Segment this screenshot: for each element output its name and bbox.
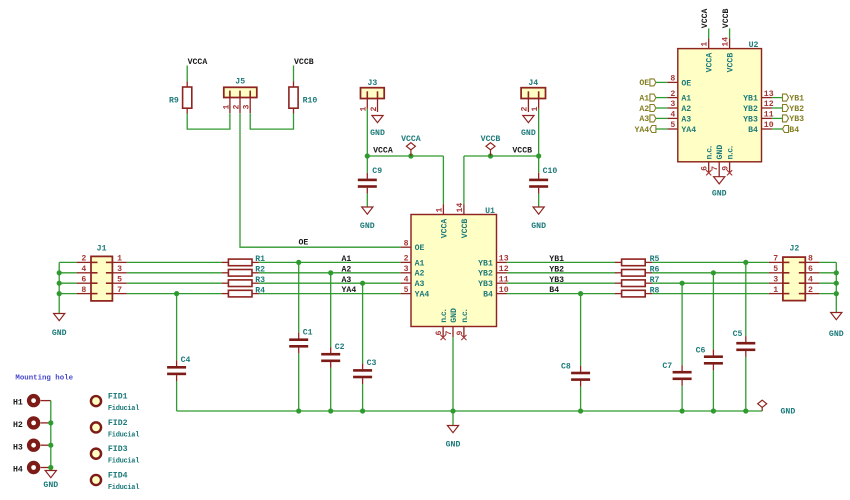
wire to C10 [538, 156, 540, 173]
wire YB2 to C6 [712, 273, 714, 350]
svg-text:A1: A1 [639, 94, 649, 103]
power symbol GND at bus end [758, 400, 796, 416]
resistor R10 [289, 82, 318, 114]
svg-text:8: 8 [670, 75, 675, 84]
svg-text:7: 7 [117, 286, 122, 295]
svg-text:GND: GND [52, 329, 67, 338]
wire ground bus [177, 410, 763, 412]
svg-text:7: 7 [445, 331, 454, 336]
resistor R4 [222, 286, 265, 297]
svg-text:5: 5 [117, 275, 122, 284]
junction bus C2 [328, 408, 333, 413]
global label YA4 [634, 126, 655, 135]
svg-text:9: 9 [456, 331, 465, 336]
svg-text:VCCA: VCCA [373, 147, 393, 156]
wire A1 label to U2 [656, 97, 668, 99]
wire J1 to R3 [127, 282, 222, 284]
svg-text:GND: GND [370, 129, 385, 138]
svg-text:H4: H4 [13, 466, 23, 475]
global label B4 [783, 126, 800, 135]
svg-text:Fiducial: Fiducial [108, 458, 139, 466]
wire J2 right pin to bus [819, 261, 836, 263]
svg-text:8: 8 [81, 286, 86, 295]
junction YB2 tap [711, 270, 716, 275]
wire A2 label to U2 [656, 107, 668, 109]
svg-text:A3: A3 [639, 115, 649, 124]
svg-text:H1: H1 [13, 399, 23, 408]
wire C1 to ground bus [298, 353, 300, 411]
power symbol VCCB [481, 135, 501, 156]
op-amp U2 (level shifter IC) [667, 37, 773, 177]
no-connect pin 6 of U1 [441, 335, 446, 340]
svg-text:B4: B4 [748, 126, 758, 135]
svg-text:A2: A2 [639, 105, 649, 114]
wire J2 right pin to bus [819, 293, 836, 295]
no-connect pin 6 of U2 [706, 170, 711, 175]
svg-text:GND: GND [446, 440, 461, 449]
svg-text:R9: R9 [169, 96, 179, 105]
wire VCCB rail to U1 pin14 [463, 156, 465, 204]
mounting hole H2 [13, 416, 51, 430]
junction J2 bus [834, 281, 839, 286]
svg-text:GND: GND [781, 407, 796, 416]
svg-text:2: 2 [370, 107, 379, 112]
svg-text:VCCA: VCCA [701, 8, 710, 28]
wire J1 to R1 [127, 261, 222, 263]
svg-text:YB3: YB3 [743, 115, 758, 124]
global label YB3 [783, 115, 805, 124]
wire R8 to J2 [651, 293, 769, 295]
wire U2 to YB2 label [772, 107, 783, 109]
svg-text:2: 2 [404, 255, 409, 264]
svg-text:5: 5 [404, 286, 409, 295]
wire C6 to ground bus [712, 370, 714, 411]
svg-text:4: 4 [808, 275, 813, 284]
svg-text:Mounting hole: Mounting hole [15, 374, 73, 382]
svg-text:n.c.: n.c. [727, 145, 736, 159]
power symbol VCCA [401, 135, 421, 156]
svg-text:1: 1 [117, 255, 122, 264]
junction J1 bus [57, 281, 62, 286]
ground symbol GND (mounting) [43, 471, 58, 491]
ground symbol GND (C9) [360, 207, 375, 231]
svg-text:Fiducial: Fiducial [108, 484, 139, 492]
wire [293, 66, 295, 82]
junction H4 [48, 465, 53, 470]
no-connect pin 9 of U2 [727, 170, 732, 175]
wire mounting hole ground bus [50, 401, 52, 471]
global label YB2 [783, 105, 805, 114]
global label A2 [639, 105, 656, 114]
svg-text:A3: A3 [342, 276, 352, 285]
svg-text:B4: B4 [483, 291, 493, 300]
svg-text:YB2: YB2 [478, 270, 493, 279]
wire J2 right pin to bus [819, 272, 836, 274]
svg-text:FID1: FID1 [108, 393, 128, 402]
wire R3 to U1 [259, 282, 401, 284]
svg-text:OE: OE [681, 79, 691, 88]
svg-text:n.c.: n.c. [461, 309, 470, 323]
svg-text:FID2: FID2 [108, 419, 128, 428]
resistor R6 [615, 266, 660, 277]
svg-text:YB2: YB2 [743, 105, 758, 114]
wire U1 to R8 [507, 293, 616, 295]
wire U1 to R6 [507, 272, 616, 274]
wire J5 pin2 to OE net [240, 113, 401, 247]
global label OE [639, 79, 656, 88]
resistor R9 [169, 82, 192, 114]
wire C10 to ground [538, 194, 540, 207]
svg-text:Fiducial: Fiducial [108, 405, 139, 413]
svg-text:R7: R7 [650, 276, 660, 285]
wire C8 to ground bus [580, 387, 582, 411]
wire U2 to YB1 label [772, 97, 783, 99]
wire A3 to C3 [362, 283, 364, 363]
wire J1 ground bus [58, 262, 60, 313]
global label A3 [639, 115, 656, 124]
junction bus C5 [743, 408, 748, 413]
svg-text:C1: C1 [303, 328, 313, 337]
svg-text:4: 4 [670, 111, 675, 120]
svg-text:OE: OE [639, 79, 649, 88]
junction YB1 tap [743, 260, 748, 265]
svg-text:6: 6 [808, 265, 813, 274]
junction bus U1 gnd [450, 408, 455, 413]
svg-text:8: 8 [404, 239, 409, 248]
svg-text:VCCB: VCCB [722, 8, 731, 28]
svg-text:YB2: YB2 [789, 105, 804, 114]
svg-text:1: 1 [222, 105, 231, 110]
capacitor C5 [733, 330, 756, 357]
svg-text:2: 2 [233, 105, 242, 110]
global label YB1 [783, 94, 805, 103]
svg-text:C10: C10 [543, 167, 558, 176]
svg-text:GND: GND [521, 129, 536, 138]
svg-text:YA4: YA4 [634, 126, 649, 135]
capacitor C8 [561, 362, 590, 386]
svg-text:VCCB: VCCB [294, 58, 314, 67]
svg-text:VCCA: VCCA [188, 58, 208, 67]
wire VCCA rail to U1 pin1 [442, 156, 444, 204]
no-connect pin 9 of U1 [461, 335, 466, 340]
svg-text:YA4: YA4 [681, 126, 696, 135]
wire J1 to R2 [127, 272, 222, 274]
wire J1 left pin to bus [59, 272, 76, 274]
svg-text:B4: B4 [789, 126, 799, 135]
svg-text:GND: GND [531, 222, 546, 231]
junction YB3 tap [680, 281, 685, 286]
wire VCCB rail [464, 155, 539, 157]
svg-text:1: 1 [773, 286, 778, 295]
svg-text:VCCA: VCCA [440, 219, 449, 239]
resistor R5 [615, 255, 660, 266]
ground symbol GND (C10) [531, 207, 546, 231]
wire U2 VCCB [729, 28, 731, 38]
svg-text:H2: H2 [13, 421, 23, 430]
svg-text:3: 3 [243, 105, 252, 110]
svg-text:14: 14 [456, 203, 465, 213]
wire R9 to J5 pin1 [187, 113, 230, 129]
svg-text:9: 9 [722, 166, 731, 171]
svg-text:OE: OE [415, 244, 425, 253]
svg-text:1: 1 [701, 42, 710, 47]
resistor R7 [615, 276, 660, 287]
resistor R8 [615, 286, 660, 297]
svg-text:A2: A2 [342, 265, 352, 274]
wire YB3 to C7 [681, 283, 683, 365]
capacitor C9 [358, 167, 382, 193]
fiducial FID3 [91, 445, 139, 466]
capacitor C3 [353, 359, 376, 384]
svg-text:2: 2 [81, 255, 86, 264]
wire C3 to ground bus [362, 384, 364, 411]
wire J1 left pin to bus [59, 261, 76, 263]
svg-text:C9: C9 [372, 167, 382, 176]
wire VCCA rail [367, 155, 443, 157]
ground symbol GND (J3) [370, 116, 385, 139]
svg-text:H3: H3 [13, 443, 23, 452]
svg-text:R3: R3 [255, 276, 265, 285]
wire R5 to J2 [651, 261, 769, 263]
wire U2 to YB3 label [772, 117, 783, 119]
wire R7 to J2 [651, 282, 769, 284]
svg-text:U2: U2 [749, 41, 759, 50]
ground symbol GND (J4) [521, 116, 536, 139]
svg-text:YB2: YB2 [549, 265, 564, 274]
wire YA4 to C4 [176, 294, 178, 361]
svg-text:8: 8 [808, 255, 813, 264]
svg-text:C8: C8 [561, 362, 571, 371]
svg-text:R2: R2 [255, 266, 265, 275]
wire J4 pin1 down [538, 109, 540, 156]
resistor R3 [222, 276, 265, 287]
svg-text:3: 3 [117, 265, 122, 274]
connector J4 [521, 79, 546, 112]
junction VCCB at J4/C10 [536, 153, 541, 158]
junction YA4 tap [174, 291, 179, 296]
junction B4 tap [578, 291, 583, 296]
mounting hole H4 [13, 461, 51, 475]
svg-text:VCCA: VCCA [706, 53, 715, 73]
svg-text:C6: C6 [696, 346, 706, 355]
svg-text:VCCB: VCCB [481, 135, 501, 144]
svg-text:VCCB: VCCB [727, 53, 736, 73]
svg-text:Fiducial: Fiducial [108, 431, 139, 439]
svg-text:GND: GND [712, 189, 727, 198]
op-amp U1 (level shifter IC) [401, 203, 509, 341]
svg-text:C2: C2 [335, 343, 345, 352]
svg-text:2: 2 [521, 107, 530, 112]
svg-text:R10: R10 [303, 96, 318, 105]
svg-text:VCCB: VCCB [461, 219, 470, 239]
ground symbol GND (J1) [52, 314, 67, 339]
svg-text:A1: A1 [415, 259, 425, 268]
wire to C9 [366, 156, 368, 173]
junction bus C8 [578, 408, 583, 413]
capacitor C6 [696, 346, 723, 370]
svg-text:R1: R1 [255, 255, 265, 264]
svg-text:YA4: YA4 [342, 286, 357, 295]
svg-text:YB3: YB3 [549, 276, 564, 285]
svg-text:GND: GND [716, 145, 725, 160]
svg-text:YB1: YB1 [789, 94, 804, 103]
fiducial FID4 [91, 471, 139, 492]
wire J1 to R4 [127, 293, 222, 295]
mounting hole H1 [13, 394, 51, 408]
svg-text:A3: A3 [681, 115, 691, 124]
svg-text:3: 3 [404, 265, 409, 274]
wire stub to GND below bus [452, 411, 454, 426]
connector J3 [360, 79, 385, 112]
svg-text:C3: C3 [367, 359, 377, 368]
svg-text:4: 4 [81, 265, 86, 274]
wire A3 label to U2 [656, 117, 668, 119]
wire R4 to U1 [259, 293, 401, 295]
svg-text:J1: J1 [97, 244, 107, 253]
junction J1 bus [57, 291, 62, 296]
svg-text:n.c.: n.c. [706, 145, 715, 159]
wire J1 left pin to bus [59, 282, 76, 284]
junction VCCB at power symbol [488, 153, 493, 158]
svg-text:B4: B4 [549, 286, 559, 295]
svg-text:OE: OE [299, 239, 309, 248]
svg-text:n.c.: n.c. [440, 309, 449, 323]
junction bus C6 [711, 408, 716, 413]
wire U1 pin7 to ground bus [452, 337, 454, 411]
connector J2 [769, 244, 820, 300]
svg-text:YA4: YA4 [415, 291, 430, 300]
svg-text:5: 5 [773, 265, 778, 274]
svg-text:R6: R6 [650, 266, 660, 275]
junction A3 tap [360, 281, 365, 286]
wire J2 right pin to bus [819, 282, 836, 284]
svg-text:A1: A1 [342, 255, 352, 264]
wire J1 left pin to bus [59, 293, 76, 295]
svg-text:R5: R5 [650, 255, 660, 264]
wire B4 to C8 [580, 294, 582, 366]
connector J5 [222, 78, 256, 114]
svg-text:1: 1 [435, 208, 444, 213]
wire C2 to ground bus [330, 368, 332, 411]
wire R10 to J5 pin3 [250, 113, 293, 129]
svg-text:A2: A2 [681, 105, 691, 114]
wire R6 to J2 [651, 272, 769, 274]
svg-text:VCCB: VCCB [512, 147, 532, 156]
svg-text:J5: J5 [235, 78, 245, 87]
svg-text:U1: U1 [485, 207, 495, 216]
svg-text:C5: C5 [733, 330, 743, 339]
capacitor C2 [321, 343, 344, 368]
svg-text:YB1: YB1 [549, 255, 564, 264]
junction bus C7 [680, 408, 685, 413]
svg-text:FID3: FID3 [108, 445, 128, 454]
wire A2 to C2 [330, 273, 332, 347]
junction J2 bus [834, 291, 839, 296]
junction bus C1 [296, 408, 301, 413]
svg-text:A3: A3 [415, 280, 425, 289]
junction VCCA at power symbol [408, 153, 413, 158]
junction H3 [48, 443, 53, 448]
connector J1 [77, 244, 127, 301]
resistor R1 [222, 255, 265, 266]
svg-text:YB1: YB1 [478, 259, 493, 268]
junction J1 bus [57, 270, 62, 275]
wire OE label to U2 [656, 81, 668, 83]
wire YB1 to C5 [745, 262, 747, 336]
svg-text:GND: GND [43, 481, 58, 490]
svg-text:6: 6 [701, 166, 710, 171]
junction bus C3 [360, 408, 365, 413]
svg-text:GND: GND [450, 308, 459, 323]
capacitor C1 [289, 328, 312, 353]
svg-text:R4: R4 [255, 286, 265, 295]
wire U2 VCCA [708, 28, 710, 38]
svg-text:3: 3 [670, 100, 675, 109]
svg-text:R8: R8 [650, 286, 660, 295]
wire U1 to R7 [507, 282, 616, 284]
wire YA4 label to U2 [656, 128, 668, 130]
ground symbol GND (U1) [446, 426, 461, 450]
svg-text:2: 2 [670, 90, 675, 99]
svg-text:3: 3 [773, 275, 778, 284]
svg-text:7: 7 [773, 255, 778, 264]
wire U1 to R5 [507, 261, 616, 263]
svg-text:J4: J4 [528, 79, 538, 88]
svg-text:7: 7 [711, 166, 720, 171]
fiducial FID2 [91, 419, 139, 440]
svg-text:FID4: FID4 [108, 471, 128, 480]
svg-text:YB3: YB3 [478, 280, 493, 289]
svg-text:C7: C7 [662, 362, 672, 371]
wire A1 to C1 [298, 262, 300, 332]
svg-text:GND: GND [360, 222, 375, 231]
junction A2 tap [328, 270, 333, 275]
svg-text:A1: A1 [681, 95, 691, 104]
svg-text:6: 6 [81, 275, 86, 284]
svg-text:VCCA: VCCA [401, 135, 421, 144]
junction A1 tap [296, 260, 301, 265]
capacitor C4 [167, 356, 190, 381]
global label A1 [639, 94, 656, 103]
wire C5 to ground bus [745, 357, 747, 411]
svg-text:A2: A2 [415, 270, 425, 279]
fiducial FID1 [91, 393, 139, 414]
wire J3 pin1 down [366, 109, 368, 156]
wire J2 ground bus [835, 262, 837, 312]
svg-text:6: 6 [435, 331, 444, 336]
capacitor C10 [529, 167, 557, 193]
svg-text:J3: J3 [367, 79, 377, 88]
svg-text:YB1: YB1 [743, 95, 758, 104]
wire C9 to ground [366, 194, 368, 207]
svg-text:GND: GND [829, 330, 844, 339]
svg-text:4: 4 [404, 275, 409, 284]
junction H2 [48, 420, 53, 425]
wire C4 to ground bus [176, 381, 178, 411]
junction VCCA at J3/C9 [365, 153, 370, 158]
svg-text:C4: C4 [181, 356, 191, 365]
resistor R2 [222, 266, 265, 277]
wire U2 to B4 label [772, 128, 783, 130]
svg-text:YB3: YB3 [789, 115, 804, 124]
wire R2 to U1 [259, 272, 401, 274]
wire R1 to U1 [259, 261, 401, 263]
ground symbol GND (U2) [712, 177, 727, 199]
capacitor C7 [662, 362, 691, 386]
svg-text:2: 2 [808, 286, 813, 295]
mounting hole H3 [13, 439, 51, 453]
wire C7 to ground bus [681, 386, 683, 411]
